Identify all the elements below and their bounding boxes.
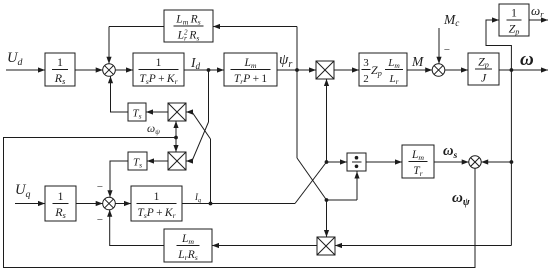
svg-text:−: − [96, 181, 103, 193]
svg-text:1: 1 [58, 189, 64, 203]
svg-text:1: 1 [57, 55, 63, 69]
svg-text:Lm Rs: Lm Rs [175, 14, 200, 27]
svg-text:M: M [411, 54, 424, 69]
svg-text:1: 1 [511, 6, 517, 20]
svg-text:3: 3 [363, 57, 369, 69]
svg-text:−: − [443, 44, 450, 56]
svg-text:ω: ω [520, 49, 534, 70]
svg-text:1: 1 [156, 57, 162, 69]
svg-text:TsP + Kr: TsP + Kr [139, 73, 178, 86]
svg-text:TsP + Kr: TsP + Kr [137, 207, 176, 220]
svg-text:LrRs: LrRs [177, 249, 198, 262]
svg-text:1: 1 [154, 191, 160, 203]
svg-text:2: 2 [363, 73, 369, 85]
svg-text:−: − [96, 214, 103, 226]
svg-text:L2r Rs: L2r Rs [177, 28, 200, 42]
svg-text:J: J [481, 71, 487, 85]
svg-text:TrP + 1: TrP + 1 [234, 73, 268, 86]
